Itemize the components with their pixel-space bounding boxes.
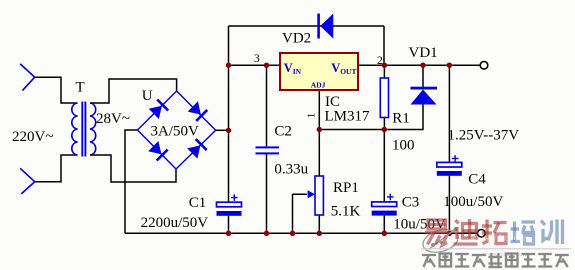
input terminal bottom xyxy=(20,168,35,194)
svg-text:IN: IN xyxy=(293,67,302,76)
diode VD2 xyxy=(317,14,333,39)
potentiometer RP1 xyxy=(308,176,324,215)
designator IC LM317 xyxy=(325,94,371,125)
wire top rail to VD2 xyxy=(229,26,385,65)
svg-text:V: V xyxy=(331,61,340,75)
watermark brand text xyxy=(425,220,449,245)
svg-text:28V~: 28V~ xyxy=(96,111,130,127)
svg-text:1.25V--37V: 1.25V--37V xyxy=(448,128,520,144)
svg-text:220V~: 220V~ xyxy=(12,129,53,145)
junction VD1 top xyxy=(420,62,425,67)
bridge diode top-left xyxy=(149,100,169,120)
svg-text:0.33u: 0.33u xyxy=(274,162,308,178)
capacitor C1 xyxy=(217,194,242,216)
watermark slogan text xyxy=(422,255,436,267)
capacitor C4 xyxy=(437,155,462,176)
watermark logo ellipse xyxy=(420,226,460,256)
transformer T core xyxy=(82,102,85,157)
svg-text:3A/50V: 3A/50V xyxy=(151,124,200,140)
junction Vout / top rail / R1 xyxy=(382,62,387,67)
capacitor C3 xyxy=(372,194,397,216)
output terminal positive xyxy=(480,62,488,70)
bridge diode bottom-right xyxy=(187,139,207,159)
wire C2 branch xyxy=(266,65,268,233)
wire AC live to transformer primary top xyxy=(35,77,78,103)
input terminal top xyxy=(20,64,35,91)
output terminal negative xyxy=(478,230,486,238)
wire C4 leads xyxy=(448,65,450,233)
junction C4 bottom xyxy=(447,231,452,236)
wire ADJ rail xyxy=(319,65,423,129)
diode VD1 xyxy=(411,87,438,105)
svg-text:100: 100 xyxy=(392,138,415,154)
svg-text:U: U xyxy=(142,88,153,104)
wire bridge negative output to bottom rail xyxy=(125,130,138,233)
bridge diode bottom-left xyxy=(148,141,168,161)
svg-text:R1: R1 xyxy=(392,111,410,127)
svg-text:OUT: OUT xyxy=(340,67,356,76)
transformer T primary winding xyxy=(72,103,78,155)
bridge diode top-right xyxy=(188,101,208,121)
svg-text:100u/50V: 100u/50V xyxy=(443,194,503,210)
wire secondary top to bridge top vertex xyxy=(90,79,177,103)
svg-text:VD2: VD2 xyxy=(282,31,311,47)
svg-text:V: V xyxy=(284,61,293,75)
svg-text:LM317: LM317 xyxy=(325,109,371,125)
bridge rectifier U diamond xyxy=(138,91,216,169)
wire ADJ pin to RP1 xyxy=(318,90,320,233)
svg-text:C4: C4 xyxy=(468,172,486,188)
wire RP1 wiper xyxy=(293,194,308,233)
svg-text:3: 3 xyxy=(254,53,260,65)
wire Vin rail xyxy=(229,64,281,66)
wire Vout rail xyxy=(358,64,480,66)
svg-text:C2: C2 xyxy=(274,124,292,140)
junction C2 top xyxy=(264,62,269,67)
wire main positive vertical xyxy=(228,26,230,233)
junction R1 bottom / C3 xyxy=(382,127,387,132)
wire AC neutral to transformer primary bottom xyxy=(35,155,78,182)
junction C2 bottom xyxy=(264,231,269,236)
watermark xyxy=(420,219,571,267)
wire bridge positive output to main vertical xyxy=(216,129,229,131)
svg-text:VD1: VD1 xyxy=(409,45,438,61)
resistor R1 xyxy=(380,78,388,118)
svg-text:2200u/50V: 2200u/50V xyxy=(141,215,209,231)
svg-text:C1: C1 xyxy=(189,195,207,211)
svg-text:RP1: RP1 xyxy=(333,180,359,196)
junction C4 top xyxy=(447,62,452,67)
transformer T secondary winding xyxy=(90,103,96,155)
watermark rule xyxy=(421,248,571,250)
wire C3 leads xyxy=(383,130,385,234)
pin label Vout xyxy=(331,61,356,76)
svg-text:T: T xyxy=(76,80,85,96)
wire bottom ground rail xyxy=(125,232,478,234)
wire secondary bottom to bridge bottom vertex xyxy=(90,155,176,182)
junction ADJ / RP1 xyxy=(317,127,322,132)
junction C3 bottom xyxy=(382,231,387,236)
junction wiper bottom xyxy=(290,231,295,236)
junction C1 bottom xyxy=(226,231,231,236)
svg-text:ADJ: ADJ xyxy=(311,81,326,90)
wire R1 leads xyxy=(383,65,385,129)
IC U1 LM317 body xyxy=(280,53,358,90)
junction RP1 bottom xyxy=(317,231,322,236)
pin label Vin xyxy=(284,61,302,76)
junction Vin rail / main vertical xyxy=(226,62,231,67)
junction bridge positive xyxy=(226,128,231,133)
capacitor C2 xyxy=(256,146,280,154)
svg-text:5.1K: 5.1K xyxy=(331,204,361,220)
svg-text:C3: C3 xyxy=(402,195,420,211)
svg-text:1: 1 xyxy=(306,113,318,119)
svg-text:www.yditt.com: www.yditt.com xyxy=(470,233,530,243)
